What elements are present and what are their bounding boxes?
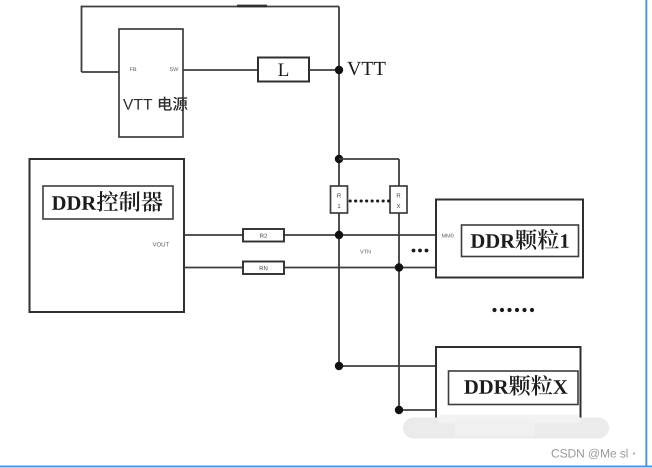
wire rail end to DDR chip X <box>339 365 436 367</box>
wire RX branch vertical lower <box>398 213 400 410</box>
wire RX branch end to DDR chip X <box>399 409 436 411</box>
node junction dot branch top <box>335 155 343 163</box>
node VTT junction dot <box>335 66 343 74</box>
label R of RX <box>397 193 401 197</box>
bus wire 2 (RN net) <box>184 267 436 269</box>
wire RX branch vertical upper <box>398 159 400 186</box>
DDR chip 1 inner label box <box>462 225 579 257</box>
bus wire 1 (R2 net) <box>184 234 436 236</box>
DDR chip X inner label box <box>449 371 579 405</box>
wire feedback left vertical <box>81 6 83 72</box>
DDR controller inner label box <box>43 186 173 219</box>
node rail end junction dot <box>335 362 343 370</box>
wire overdraw mark on top wire <box>237 5 267 8</box>
label X of RX <box>397 204 401 208</box>
node junction dot RX branch on bus2 <box>395 263 403 271</box>
label VTT 电源 <box>123 99 152 110</box>
label DDR颗粒X <box>464 380 508 394</box>
DDR chip X outer box <box>436 347 581 421</box>
watermark blur blob <box>403 418 609 439</box>
label RN <box>260 266 268 270</box>
ellipsis dots before DDR chip1 <box>412 249 416 253</box>
main VTT vertical rail upper <box>338 7 340 187</box>
wire branch horizontal to RX <box>339 158 399 160</box>
label DDR控制器 <box>52 196 96 210</box>
label R of R1 <box>337 193 341 197</box>
pin label FB <box>130 67 136 71</box>
resistor R1 (termination, vertical) <box>331 186 348 213</box>
wire feedback top <box>82 6 340 8</box>
DDR controller outer box <box>30 159 185 312</box>
resistor RX (termination, vertical) <box>390 186 407 213</box>
resistor R2 (series) <box>243 229 284 242</box>
wire to FB pin <box>82 71 120 73</box>
wire SW to inductor <box>183 69 258 71</box>
DDR chip 1 outer box <box>436 200 583 278</box>
node junction dot rail on bus1 <box>335 231 343 239</box>
inductor L box <box>258 58 309 82</box>
inductor label L <box>278 64 288 76</box>
label DDR颗粒1 <box>471 234 515 248</box>
page border right (blue) <box>645 0 647 467</box>
pin label SW <box>170 67 179 71</box>
pin label MM0 <box>442 234 454 238</box>
pin label VOUT <box>153 242 170 246</box>
net label VTT <box>347 62 385 75</box>
dotted ellipsis between R1 and RX <box>350 200 390 203</box>
vertical ellipsis dots between chips <box>492 308 496 312</box>
resistor RN (series) <box>243 262 284 275</box>
VTT regulator U1 box <box>119 29 183 137</box>
net label VTN <box>360 250 371 254</box>
page border bottom (blue) <box>0 466 652 468</box>
label R2 <box>260 234 267 238</box>
node RX branch end junction dot <box>395 406 403 414</box>
wire inductor to VTT node <box>309 69 339 71</box>
watermark text CSDN <box>552 449 628 459</box>
main VTT vertical rail lower <box>338 213 340 366</box>
label 1 of R1 <box>338 204 341 208</box>
